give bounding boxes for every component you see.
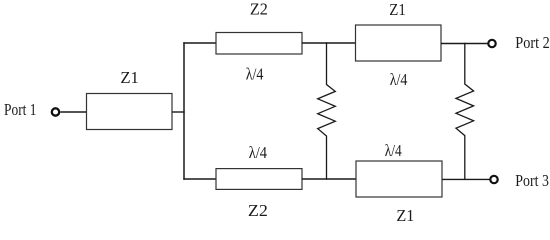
wire P1 to Z1 (60, 111, 86, 113)
wire Z2 to Z1 top (302, 42, 356, 44)
wire Z2 bottom to Z1 bottom (302, 178, 356, 180)
wire Z1 bottom to port 3 (442, 178, 490, 180)
svg-text:Z2: Z2 (248, 201, 268, 220)
transmission line Z2 (top) (216, 33, 302, 55)
wire Z1 to branch node (172, 111, 185, 113)
port terminal P2 (488, 40, 495, 47)
svg-text:Port 3: Port 3 (515, 171, 549, 190)
svg-text:Port 1: Port 1 (4, 100, 37, 119)
resistor R2 (456, 43, 474, 180)
transmission line Z1 (bottom output) (356, 161, 442, 197)
transmission line Z1 (top output) (356, 25, 442, 61)
wire branch to Z2 top (183, 42, 216, 44)
resistor R1 (318, 42, 336, 179)
port terminal P3 (490, 176, 497, 183)
svg-text:Port 2: Port 2 (515, 33, 549, 52)
svg-text:λ/4: λ/4 (249, 143, 267, 162)
svg-text:Z1: Z1 (120, 68, 138, 87)
svg-text:Z1: Z1 (396, 206, 414, 225)
wire branch to Z2 bottom (183, 178, 216, 180)
transmission line Z2 (bottom) (216, 169, 302, 190)
branch vertical wire (183, 42, 185, 179)
svg-text:Z1: Z1 (389, 0, 406, 19)
transmission line Z1 (input) (87, 94, 173, 130)
port terminal P1 (52, 108, 59, 115)
wire Z1 top to port 2 (441, 43, 488, 45)
svg-text:λ/4: λ/4 (390, 70, 408, 89)
svg-text:λ/4: λ/4 (385, 141, 402, 160)
svg-text:λ/4: λ/4 (246, 64, 264, 83)
svg-text:Z2: Z2 (250, 0, 268, 19)
